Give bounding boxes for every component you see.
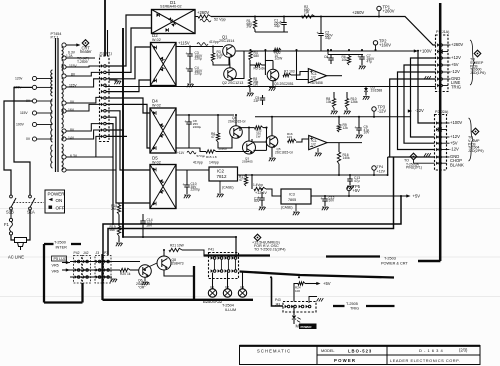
transformer primary pin 120v y78.5: [32, 76, 36, 80]
connector J1 pin y91.6: [101, 90, 104, 93]
svg-text:+115V: +115V: [178, 41, 190, 46]
svg-text:+100V: +100V: [450, 120, 462, 125]
PCB boundary segment near connectors: [204, 254, 270, 256]
connector P2 pin y137: [436, 135, 439, 138]
wire P6 pin4 ground: [309, 297, 317, 304]
ground C13: [349, 181, 351, 185]
svg-text:+260V: +260V: [383, 8, 395, 13]
svg-text:1/2: 1/2: [311, 143, 316, 147]
svg-text:2SC1514: 2SC1514: [219, 39, 234, 43]
connector P6 pin x309: [306, 305, 309, 308]
connector P41 pin top x228: [225, 256, 228, 259]
svg-text:14Vpp: 14Vpp: [209, 161, 219, 165]
wire xfmr to J1 links: [66, 66, 101, 67]
ground R8: [333, 108, 335, 110]
wire bus v7: [106, 111, 150, 170]
connector P1 pin y58: [437, 56, 440, 59]
connector J1 pin y98: [101, 96, 104, 99]
T-2505 TRIG boundary line: [333, 305, 345, 307]
wire xfmr pin170 run: [66, 169, 116, 171]
transistor Q4: [230, 126, 243, 139]
wire Q4 emitter: [235, 115, 237, 126]
connector P2 dashed outline: [435, 115, 447, 171]
svg-text:P42: P42: [74, 251, 80, 255]
wire row1 to Q8: [140, 257, 157, 262]
wire -12V vertical: [398, 72, 436, 150]
wire Q6b top: [248, 128, 250, 141]
svg-text:7805: 7805: [288, 198, 296, 202]
wire D5 out: [176, 169, 209, 171]
PCB boundary bottom right segment: [418, 260, 440, 263]
wire -11V link: [176, 148, 206, 152]
label P5 LUG: [52, 256, 67, 261]
wire +260V rail: [195, 16, 198, 18]
svg-text:47: 47: [211, 135, 215, 139]
svg-text:2kV: 2kV: [147, 224, 153, 228]
resistor R16: [338, 143, 340, 150]
svg-text:+12V: +12V: [450, 134, 460, 139]
resistor R24: [298, 282, 305, 285]
svg-text:1/2: 1/2: [311, 76, 316, 80]
wire pin row to feed: [204, 250, 214, 255]
wire bus v1: [106, 15, 152, 66]
wire rail to opamp inv: [297, 50, 309, 80]
ground hatch P1: [424, 76, 431, 79]
wire R24 to pin: [294, 284, 298, 302]
wire bus v5: [106, 98, 150, 113]
ripple 52Vpp: [200, 19, 211, 22]
AC plug: [11, 235, 15, 240]
resistor R14: [288, 139, 296, 142]
svg-text:P41: P41: [208, 248, 214, 252]
wire opamp out: [327, 75, 342, 77]
svg-text:J43: J43: [275, 303, 280, 307]
wire bus v11: [106, 135, 127, 137]
diode D3: [365, 87, 367, 89]
ground D3: [365, 92, 367, 96]
transformer PT1 core: [55, 38, 57, 172]
wire Q4 collector to -11V: [235, 138, 237, 151]
wire Q1 Q2 link: [229, 57, 232, 67]
capacitor C12: [324, 196, 326, 199]
testpoint TP1: [377, 6, 381, 10]
ground C11: [261, 200, 263, 206]
capacitor C8: [188, 115, 190, 122]
svg-text:1S1588: 1S1588: [371, 89, 383, 93]
ground C4: [189, 71, 191, 83]
svg-text:TA75458: TA75458: [310, 81, 323, 85]
wire xfmr pin157 run: [66, 156, 113, 158]
transformer primary pin 0V y101: [32, 99, 36, 103]
svg-text:J3: J3: [96, 251, 100, 255]
svg-text:S1B: S1B: [6, 210, 14, 215]
op-amp IC1a: [308, 69, 326, 83]
switch S1A: [29, 195, 32, 198]
resistor R6: [348, 55, 350, 57]
wire +12V out rail: [238, 174, 388, 176]
wire bus v2: [106, 28, 152, 72]
wire P41 link x235: [234, 260, 236, 270]
ground C10: [186, 187, 188, 194]
node TO T-2503A diamond: [410, 153, 417, 160]
wire AC primary left: [4, 101, 32, 195]
svg-text:+100V: +100V: [420, 48, 432, 53]
svg-text:23P: 23P: [254, 99, 261, 103]
wire Q2 out to +100V rail: [235, 51, 245, 79]
connector J3 P3 outline: [95, 256, 103, 284]
transformer primary pin 0V y139: [32, 137, 36, 141]
svg-text:J2D(2P9): J2D(2P9): [468, 149, 484, 153]
transformer secondary pin y170: [62, 168, 66, 172]
svg-text:+12V: +12V: [451, 55, 461, 60]
wire GND branch down: [387, 157, 389, 175]
fuse F1: [10, 210, 12, 218]
connector J1 pin y78.8: [101, 77, 104, 80]
wire long rail B: [108, 157, 394, 255]
wire Q1 base R3: [213, 57, 229, 65]
transformer secondary pin y131: [62, 129, 66, 133]
wire bus v3: [106, 47, 151, 79]
transistor Q8: [157, 256, 171, 270]
transistor Q6b: [243, 141, 256, 154]
capacitor C9: [358, 117, 360, 128]
connector P2 pin y163.2: [436, 162, 439, 165]
svg-text:220μ: 220μ: [195, 72, 203, 76]
wire rail y54.5: [328, 54, 363, 56]
resistor R6b: [217, 115, 219, 133]
resistor R2: [302, 15, 315, 18]
connector row pins y261.5: [75, 260, 78, 263]
svg-text:POWER: POWER: [334, 358, 356, 363]
junction dots: [254, 15, 256, 17]
resistor R10: [346, 92, 348, 99]
svg-text:7812: 7812: [217, 174, 228, 179]
transformer primary winding: [51, 70, 53, 96]
svg-text:AC LINE: AC LINE: [8, 255, 24, 260]
wire bottom rail y174: [250, 174, 375, 176]
svg-text:IC2: IC2: [217, 169, 225, 174]
transformer secondary pin y76: [62, 74, 66, 78]
connector P42 J42 outline: [74, 256, 82, 284]
connector row pins y270: [75, 268, 78, 271]
svg-text:126k: 126k: [351, 100, 359, 104]
wire +5V to R24: [305, 283, 319, 285]
connector P41 pin top x214: [211, 256, 214, 259]
svg-text:100V: 100V: [16, 123, 25, 127]
svg-text:PIN2(2P1): PIN2(2P1): [406, 166, 422, 170]
transformer secondary pin y58: [62, 56, 66, 60]
svg-text:33μ: 33μ: [325, 36, 331, 40]
svg-text:2M: 2M: [111, 207, 116, 211]
resistor R17: [245, 175, 247, 177]
svg-text:0V: 0V: [26, 137, 31, 141]
resistor R8: [333, 92, 335, 99]
svg-text:+5V: +5V: [451, 62, 459, 67]
svg-text:50V: 50V: [329, 199, 336, 203]
ground hatch P2: [424, 153, 431, 156]
testpoint TP4: [372, 166, 376, 170]
LED D6 power indicator: [293, 308, 295, 315]
resistor R22: [274, 48, 282, 51]
switch S1B: [10, 195, 13, 198]
svg-text:1.4Vpp: 1.4Vpp: [253, 183, 263, 187]
svg-text:POWER: POWER: [301, 325, 313, 329]
wire pin58 stub: [66, 57, 95, 59]
PCB boundary lower heavy line: [240, 272, 395, 278]
wire R1 C1 bottom: [254, 30, 256, 33]
svg-text:+260V: +260V: [352, 10, 364, 15]
wire P41 link x214: [213, 260, 215, 270]
svg-text:F1: F1: [4, 222, 10, 227]
node TO SWEEP PCB diamond: [474, 50, 481, 57]
wire bus v6: [106, 104, 150, 148]
wire top feed: [104, 0, 106, 56]
svg-text:W-02: W-02: [152, 104, 161, 108]
svg-text:(CASE): (CASE): [281, 206, 293, 210]
transformer secondary pin y45: [62, 43, 66, 47]
svg-text:47: 47: [239, 178, 243, 182]
connector P41 pin bottom x214: [211, 269, 214, 272]
svg-text:P3: P3: [104, 251, 108, 255]
ground C12: [324, 201, 326, 206]
svg-text:R20 1k: R20 1k: [120, 272, 131, 276]
wire +12.4V feed: [251, 175, 253, 189]
lamp V2: [223, 289, 231, 297]
resistor R20: [120, 268, 130, 271]
transistor Q3: [267, 69, 279, 81]
svg-text:140k: 140k: [343, 156, 351, 160]
svg-text:P43: P43: [275, 298, 281, 302]
bridge rectifier D2: [151, 43, 177, 86]
svg-text:2SB473: 2SB473: [172, 262, 184, 266]
ground opamp2: [317, 148, 319, 152]
svg-text:R15 1.8: R15 1.8: [206, 155, 217, 159]
svg-text:+5V: +5V: [353, 188, 361, 193]
wire +100V rail: [236, 50, 417, 52]
wire P6 feed: [272, 278, 284, 307]
transformer secondary pin y157: [62, 155, 66, 159]
connector P2 pin y143.2: [436, 142, 439, 145]
resistor R18: [116, 202, 119, 204]
wire +5V vertical: [404, 65, 436, 143]
svg-text:680: 680: [254, 54, 260, 58]
svg-text:52 Vpp: 52 Vpp: [214, 18, 226, 22]
svg-text:POWER: POWER: [48, 192, 66, 197]
wire Q5 emitter gnd: [271, 147, 273, 157]
svg-text:TRIG: TRIG: [451, 84, 461, 89]
svg-text:S1RBA40-02: S1RBA40-02: [160, 5, 182, 9]
connector P41 pin top x235: [232, 256, 235, 259]
connector P6 pin x302: [299, 305, 302, 308]
capacitor C6: [330, 55, 332, 59]
lamp V3: [238, 289, 246, 297]
svg-text:LEADER ELECTRONICS CORP.: LEADER ELECTRONICS CORP.: [390, 358, 460, 363]
wire +5V out: [311, 195, 409, 197]
svg-text:IC3: IC3: [289, 193, 295, 197]
svg-text:TRIG: TRIG: [350, 307, 359, 311]
capacitor C14: [142, 214, 144, 221]
wire P41 link x221: [220, 260, 222, 270]
svg-text:T-2505: T-2505: [346, 302, 358, 306]
svg-text:12k: 12k: [343, 126, 349, 130]
svg-text:D - 1 6 3 4: D - 1 6 3 4: [419, 348, 443, 353]
svg-text:Q3 2SC2051: Q3 2SC2051: [274, 82, 294, 86]
wire Q3 collector: [272, 61, 274, 70]
connector P1 pin y85.5: [437, 84, 440, 87]
wire LINE TRIG long run: [106, 86, 436, 88]
connector P1 pin2 no-connect: [439, 50, 443, 54]
wire P41 link x228: [227, 260, 229, 270]
connector J1 pin y66: [101, 64, 104, 67]
svg-text:+260V: +260V: [451, 42, 463, 47]
svg-text:J42: J42: [83, 251, 89, 255]
svg-text:47μ: 47μ: [367, 60, 373, 64]
svg-text:-0.65V: -0.65V: [218, 147, 227, 151]
transformer primary pin 100V y124.5: [32, 122, 36, 126]
svg-text:41Vpp: 41Vpp: [193, 161, 203, 165]
connector P2 pin y129.5: [436, 128, 439, 131]
connector P1 pin y72: [437, 70, 440, 73]
svg-text:1/2W: 1/2W: [275, 57, 284, 61]
svg-text:LBO-523: LBO-523: [348, 349, 372, 354]
bridge rectifier D5: [150, 165, 176, 209]
resistor R8b: [249, 61, 251, 78]
wire bus v10: [106, 129, 123, 131]
connector P1 pin y65: [437, 63, 440, 66]
svg-text:2200μ: 2200μ: [193, 125, 202, 129]
switch gang dashed link: [14, 202, 45, 204]
capacitor C5: [262, 95, 264, 98]
connector P41 pin bottom x221: [218, 269, 221, 272]
ground C7: [361, 59, 363, 65]
capacitor C1: [283, 17, 285, 23]
svg-text:1.2A: 1.2A: [66, 54, 73, 58]
connector P2 pin y157: [436, 155, 439, 158]
svg-text:2SA1015-Gr: 2SA1015-Gr: [228, 119, 247, 123]
svg-text:C6: C6: [324, 55, 328, 59]
svg-text:+5V: +5V: [413, 194, 421, 199]
resistor R1: [254, 17, 256, 21]
svg-text:"OR": "OR": [138, 285, 146, 289]
svg-text:R21 10W: R21 10W: [170, 244, 185, 248]
ground near J1: [109, 79, 118, 81]
svg-text:INTER: INTER: [56, 245, 68, 249]
svg-text:OFF: OFF: [56, 206, 65, 211]
connector J1 pin y85.2: [101, 84, 104, 87]
capacitor C13: [349, 175, 351, 179]
svg-text:120v: 120v: [15, 77, 23, 81]
svg-text:(2/3): (2/3): [459, 348, 468, 353]
transformer secondary pin y67: [62, 65, 66, 69]
transformer secondary winding: [62, 47, 64, 58]
wire Q4 base: [218, 136, 232, 148]
resistor R19: [118, 215, 120, 227]
svg-text:2200μ: 2200μ: [191, 188, 200, 192]
svg-text:heater: heater: [80, 49, 92, 54]
connector P6 pin x294.5: [291, 305, 294, 308]
wire Q6 Q8 link: [150, 263, 158, 267]
svg-text:103: 103: [287, 135, 292, 139]
svg-text:ON: ON: [56, 198, 63, 203]
bridge rectifier D1: [152, 10, 196, 34]
transformer primary pin 100v y87.4: [32, 85, 36, 89]
svg-text:2SB405: 2SB405: [242, 160, 253, 164]
IC3 7805 box: [281, 189, 311, 204]
wire +260V to P1: [211, 17, 436, 46]
transistor Q1: [223, 45, 236, 58]
wire C8 bottom: [188, 124, 190, 148]
transistor Q6: [139, 265, 152, 278]
wire R7 to opamp: [291, 72, 308, 76]
ground R10: [346, 108, 348, 110]
svg-text:220μ: 220μ: [195, 57, 203, 61]
wire Q5 collector: [271, 117, 273, 136]
PCB boundary T-2503 right edge: [439, 3, 442, 261]
connector P6 pin x288: [285, 305, 288, 308]
wire opamp2 out: [327, 142, 362, 144]
svg-text:SCHEMATIC: SCHEMATIC: [257, 348, 291, 353]
connector P2 pin y149.5: [436, 148, 439, 151]
svg-text:10k: 10k: [342, 58, 348, 62]
wire bus v9: [106, 124, 113, 224]
bridge rectifier D4: [150, 108, 176, 153]
resistor R5: [255, 63, 262, 66]
svg-text:-12V: -12V: [451, 69, 460, 74]
wire +115V rail: [176, 46, 223, 48]
node CRT heater diamond: [82, 40, 89, 47]
svg-text:B2504A32: B2504A32: [203, 299, 223, 304]
svg-text:P1(J1A): P1(J1A): [436, 30, 449, 34]
connector P1 dashed outline: [436, 35, 449, 92]
connector row pins y277: [75, 275, 78, 278]
transformer primary pin 115V y113: [32, 111, 36, 115]
wire R21 to pins: [182, 250, 204, 257]
svg-text:+5V: +5V: [450, 140, 458, 145]
ground C9: [358, 130, 360, 134]
svg-text:47μ: 47μ: [354, 179, 360, 183]
wire GND vertical: [390, 79, 436, 157]
brace P1: [470, 40, 475, 85]
ground R8b: [249, 88, 251, 92]
svg-text:+5V: +5V: [323, 281, 331, 286]
wire Q6b link Q5: [254, 149, 267, 151]
capacitor C2: [320, 17, 322, 34]
svg-text:+11V: +11V: [177, 151, 185, 155]
ground R19: [118, 236, 120, 242]
svg-text:TP4: TP4: [377, 165, 384, 169]
resistor R3: [212, 47, 214, 54]
wire -12V rail: [255, 116, 411, 118]
svg-text:ILLUM: ILLUM: [225, 308, 236, 312]
svg-text:R7 103: R7 103: [284, 70, 295, 74]
svg-text:10V: 10V: [364, 131, 371, 135]
transformer secondary pin y103: [62, 101, 66, 105]
ground Q3 emitter: [272, 81, 274, 86]
svg-text:T-2509: T-2509: [77, 60, 88, 64]
connector P1 pin y45: [437, 43, 440, 46]
testpoint TP5: [347, 186, 351, 190]
svg-text:-12V: -12V: [415, 108, 424, 113]
wire +100V to P2 pin1: [418, 51, 435, 123]
connector P1 pin y51.5: [437, 50, 440, 53]
svg-text:W-02: W-02: [152, 38, 161, 42]
connector P41 pin bottom x235: [232, 269, 235, 272]
lamp V1: [208, 289, 216, 297]
svg-text:P5 LUG: P5 LUG: [54, 257, 67, 261]
svg-text:Q2 2SC1213: Q2 2SC1213: [222, 81, 243, 85]
svg-text:J4D(1P6): J4D(1P6): [470, 71, 486, 75]
connector P2 pin y123: [436, 121, 439, 124]
